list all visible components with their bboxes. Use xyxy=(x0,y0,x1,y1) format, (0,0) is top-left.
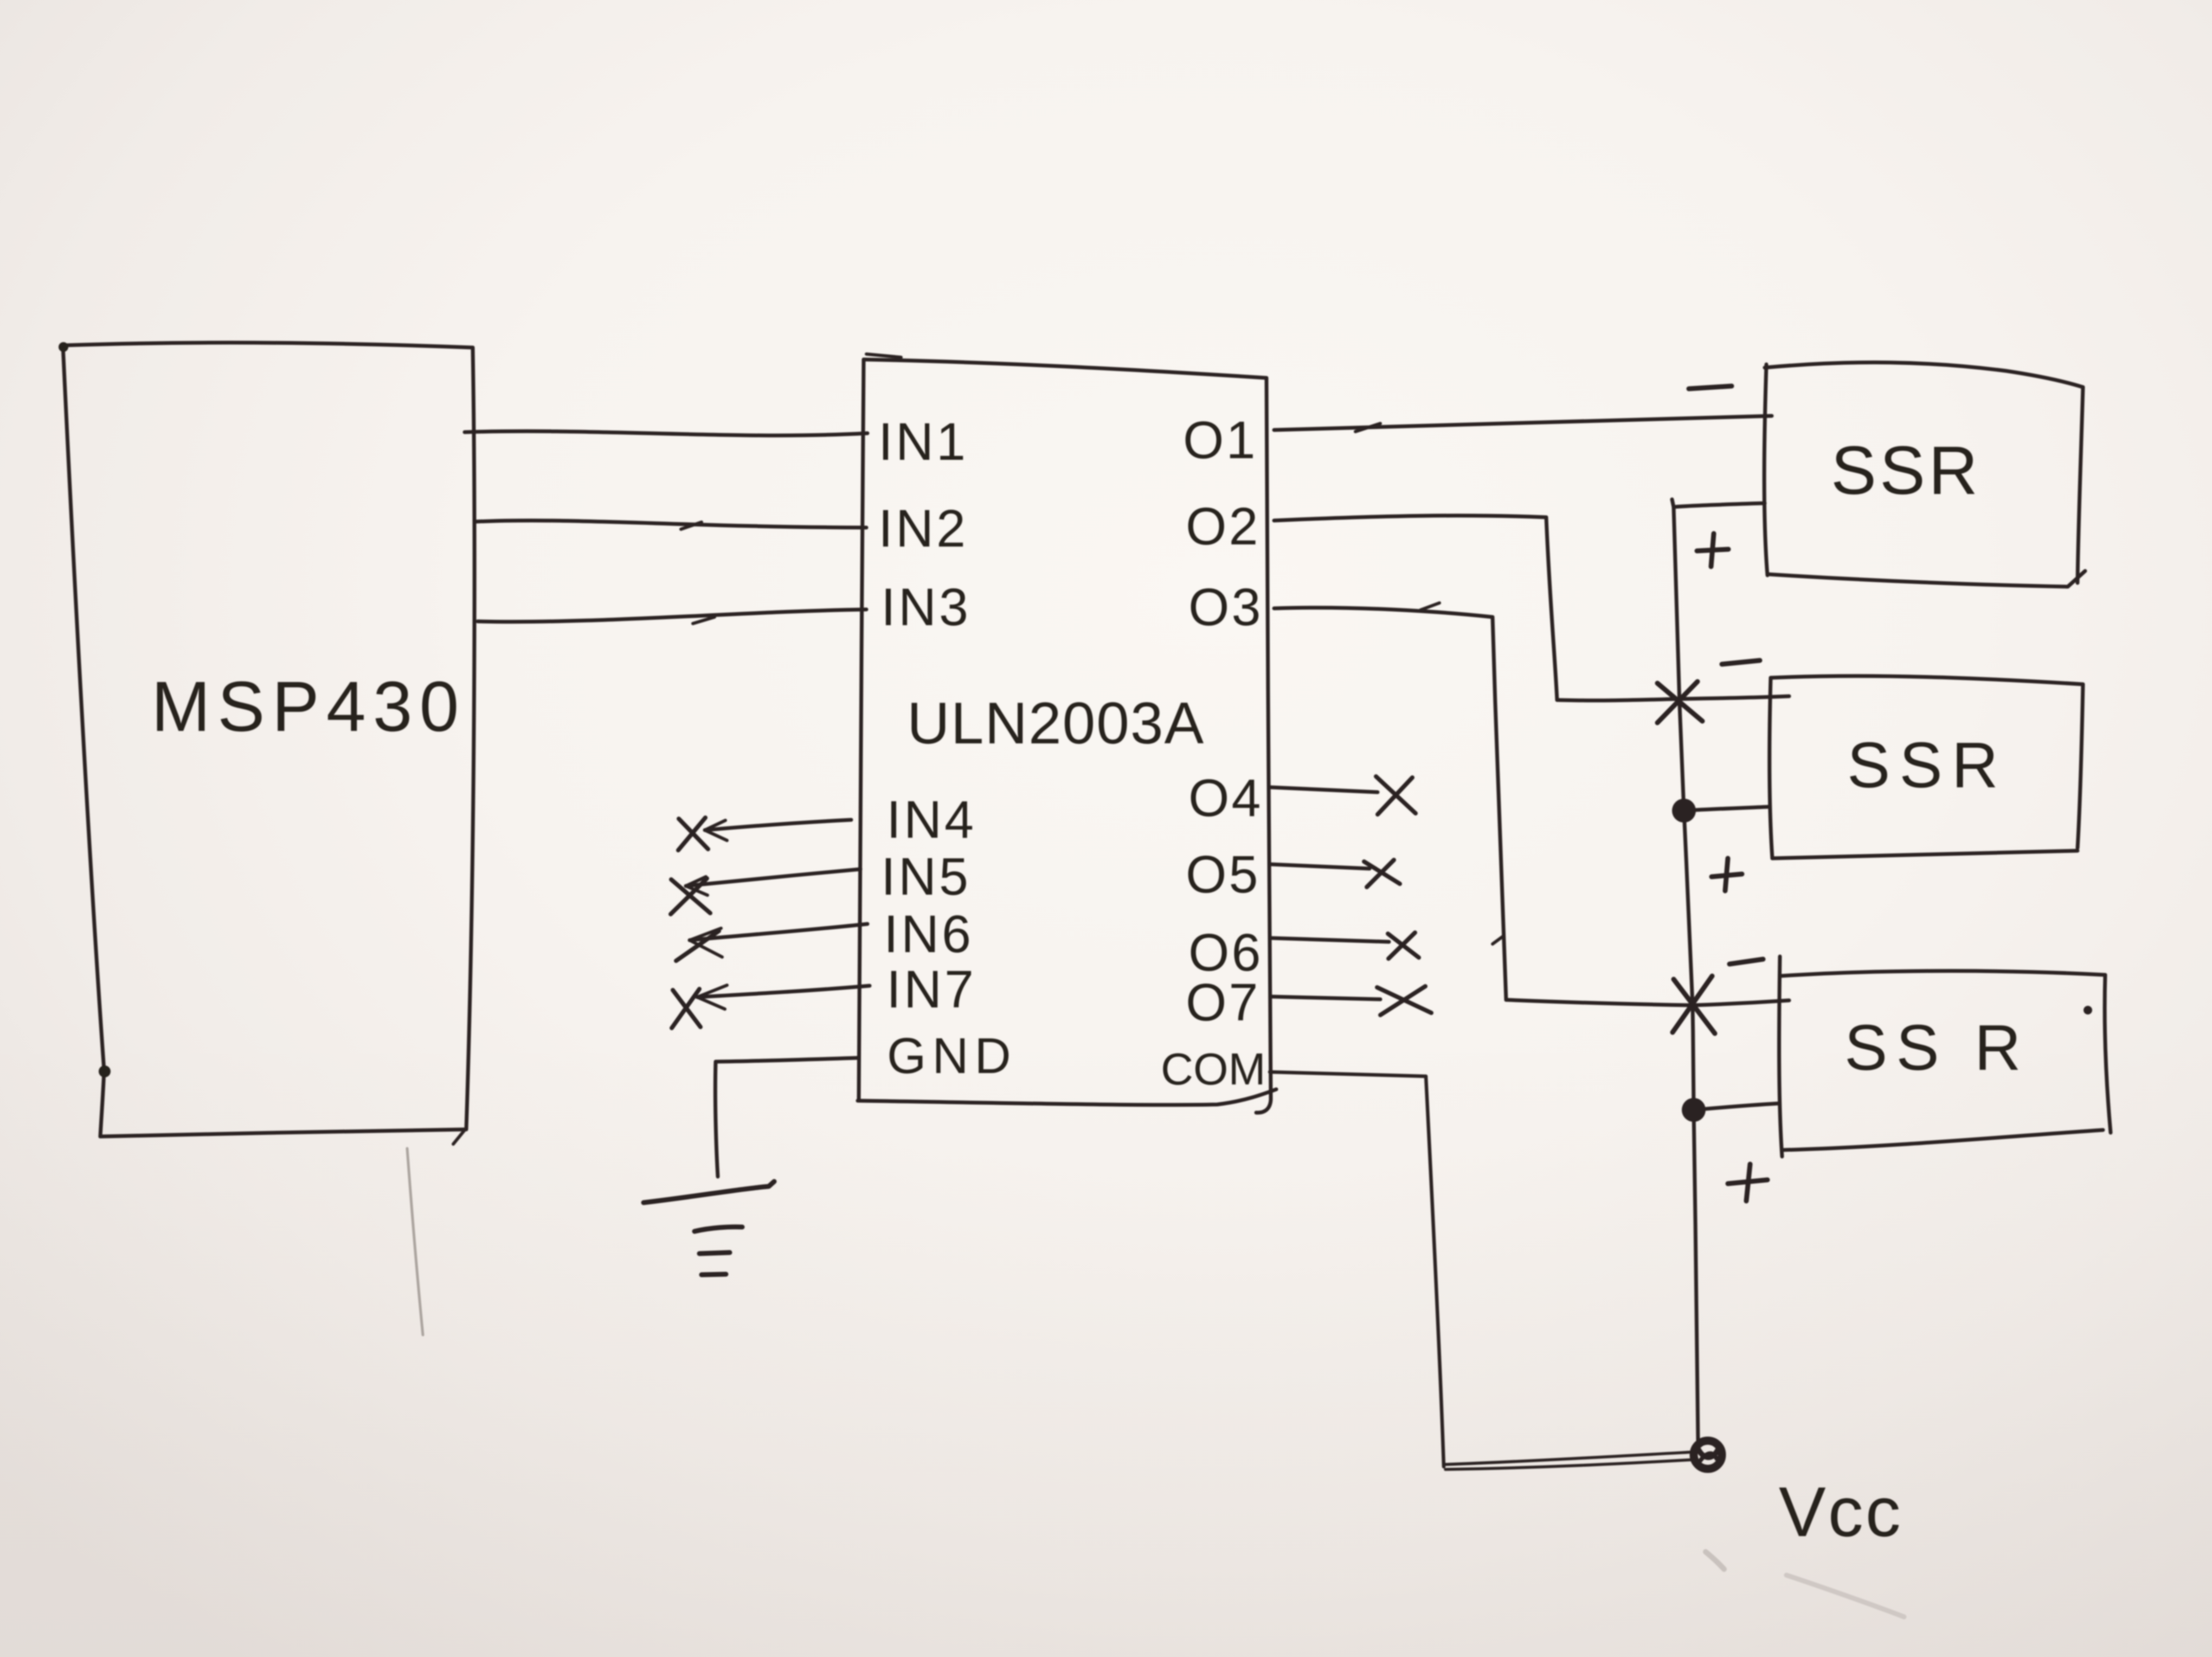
wire O1 to SSR1 minus xyxy=(1274,416,1772,432)
svg-text:IN7: IN7 xyxy=(886,960,976,1019)
Vcc node terminal circle xyxy=(1694,1441,1722,1469)
faint pencil line below MSP430 xyxy=(407,1148,423,1335)
svg-text:IN1: IN1 xyxy=(878,412,968,471)
svg-text:O5: O5 xyxy=(1186,845,1260,904)
svg-text:O2: O2 xyxy=(1186,497,1260,556)
ground symbol xyxy=(644,1181,774,1275)
svg-text:O4: O4 xyxy=(1188,768,1263,827)
wire O4 with X (unused output) xyxy=(1271,776,1416,814)
plus label SSR1 xyxy=(1697,534,1728,567)
svg-text:O1: O1 xyxy=(1183,410,1257,470)
wire IN4 arrow with X (unused input) xyxy=(678,818,851,850)
SSR3 box xyxy=(1779,956,2111,1157)
wire GND pin to ground xyxy=(715,1058,858,1177)
svg-text:IN4: IN4 xyxy=(886,790,976,849)
wire O7 with X (unused output) xyxy=(1271,986,1431,1015)
node dot D2 on rail xyxy=(1682,1098,1779,1122)
svg-text:IN2: IN2 xyxy=(878,499,968,558)
wire O3 elbow down to X junction and SSR3 minus xyxy=(1274,603,1789,1005)
node dot D1 on rail xyxy=(1672,799,1769,823)
svg-text:ULN2003A: ULN2003A xyxy=(907,690,1205,756)
MSP430 box U1 xyxy=(59,342,474,1144)
svg-text:SSR: SSR xyxy=(1831,432,1981,509)
svg-text:IN5: IN5 xyxy=(881,847,971,906)
wire SSR1 plus to rail xyxy=(1672,499,1765,507)
wire O5 with X (unused output) xyxy=(1271,860,1400,887)
svg-text:MSP430: MSP430 xyxy=(151,666,466,746)
X junction J1 (rail x O2 wire) xyxy=(1657,682,1702,723)
minus label SSR3 xyxy=(1729,959,1763,964)
wire IN7 arrow with X (unused input) xyxy=(672,985,870,1028)
svg-text:SS R: SS R xyxy=(1844,1012,2030,1084)
svg-text:IN6: IN6 xyxy=(884,904,974,964)
ULN2003A box U2 xyxy=(858,354,1276,1113)
wire IN5 arrow with X (unused input) xyxy=(671,869,860,914)
wire IN1 (MSP430 to ULN IN1) xyxy=(465,431,867,435)
svg-text:O3: O3 xyxy=(1188,577,1263,637)
plus label SSR3 xyxy=(1728,1164,1767,1201)
SSR2 box xyxy=(1770,676,2083,858)
wire IN6 arrow with X (unused input) xyxy=(676,924,867,961)
wire O2 elbow down to X junction and SSR2 minus xyxy=(1274,516,1789,701)
faint smudge bottom right xyxy=(1706,1552,1724,1569)
minus label SSR2 xyxy=(1722,660,1760,664)
svg-text:IN3: IN3 xyxy=(881,577,971,637)
SSR1 box xyxy=(1764,362,2085,587)
svg-text:O7: O7 xyxy=(1186,973,1260,1032)
svg-text:SSR: SSR xyxy=(1847,729,2008,801)
svg-text:COM: COM xyxy=(1161,1044,1266,1094)
X junction J2 (rail x O3 wire) xyxy=(1673,976,1715,1033)
wire O6 with X (unused output) xyxy=(1271,933,1419,959)
minus label SSR1 xyxy=(1689,386,1732,389)
wire IN3 (MSP430 to ULN IN3) xyxy=(478,609,866,624)
wire COM to Vcc node xyxy=(1270,1072,1694,1469)
plus label SSR2 xyxy=(1712,858,1742,891)
Vcc rail vertical xyxy=(1674,507,1698,1440)
wire IN2 (MSP430 to ULN IN2) xyxy=(476,521,866,529)
svg-text:GND: GND xyxy=(887,1027,1017,1084)
svg-text:Vcc: Vcc xyxy=(1779,1472,1903,1551)
